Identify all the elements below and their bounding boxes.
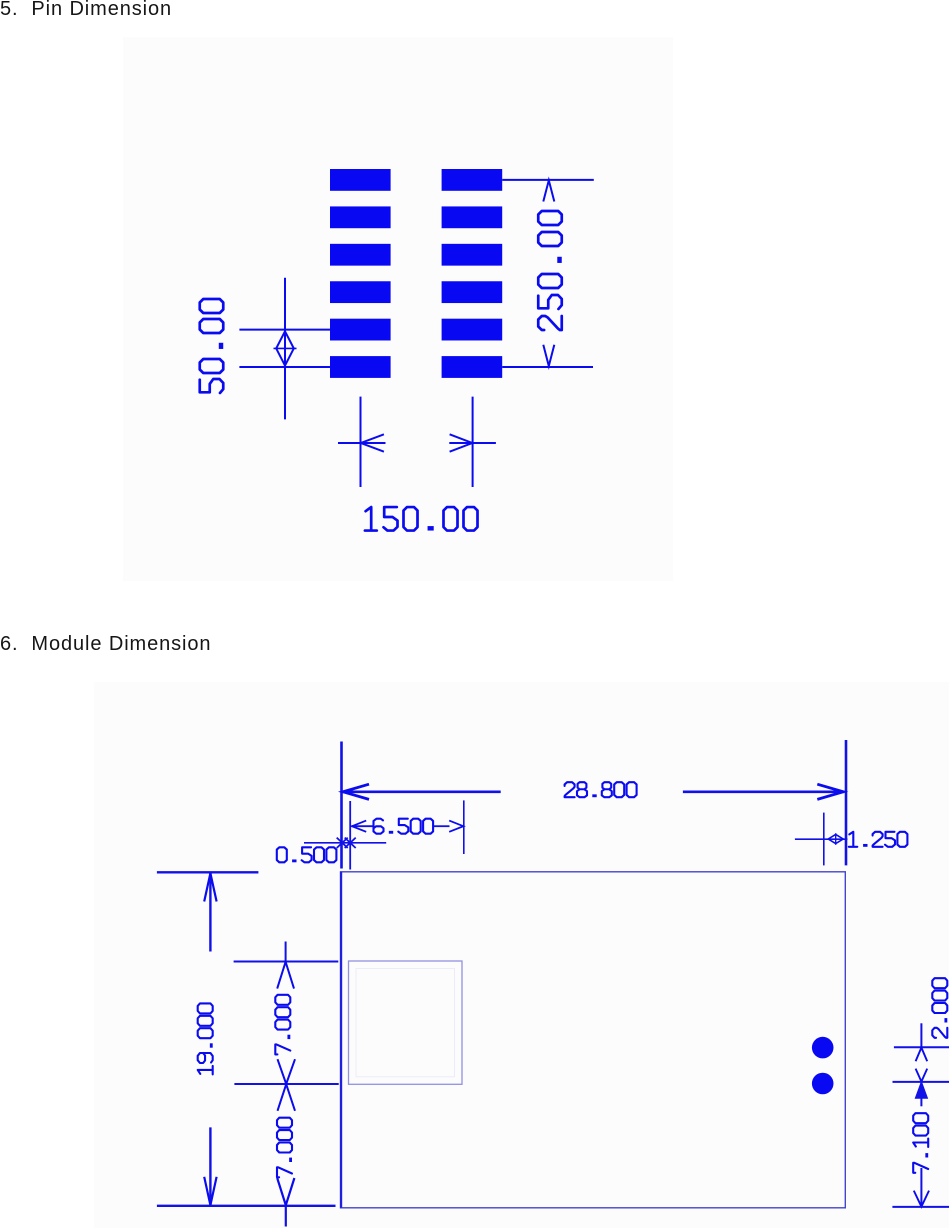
hole upper bbox=[812, 1037, 834, 1059]
250.00 extension line top bbox=[502, 179, 594, 181]
0.500 dim line bbox=[304, 842, 386, 844]
7.000 upper label bbox=[275, 995, 290, 1055]
pin pad right 6 bbox=[442, 356, 503, 378]
7.100 down arrow bbox=[914, 1191, 929, 1207]
pin pad right 2 bbox=[442, 206, 503, 228]
19.000 bottom extension line bbox=[157, 1205, 336, 1207]
pin pad left 5 bbox=[330, 319, 391, 341]
pin pad left 4 bbox=[330, 281, 391, 303]
19.000 down arrow bbox=[204, 1177, 216, 1205]
150.00 left cross line bbox=[338, 442, 386, 444]
pin pad right 4 bbox=[442, 281, 503, 303]
7.000 lower label bbox=[277, 1118, 292, 1178]
2.000 label bbox=[932, 978, 947, 1038]
7.000 upper dim line bbox=[234, 961, 339, 963]
2.000 arrow above lower line bbox=[916, 1069, 928, 1082]
shield can inner line bbox=[356, 969, 455, 1077]
7.100 label bbox=[913, 1113, 928, 1173]
pin pad left 1 bbox=[330, 169, 391, 191]
7.000 middle dim line bbox=[234, 1083, 338, 1085]
2.000 lower dim line bbox=[893, 1081, 949, 1083]
6.500 left boundary line bbox=[349, 801, 351, 870]
0.500 label bbox=[277, 847, 337, 862]
pin pad left 3 bbox=[330, 244, 391, 266]
pin pad right 5 bbox=[442, 319, 503, 341]
250.00 extension line bottom bbox=[502, 366, 593, 368]
0.500 slash mark right 2 bbox=[345, 838, 356, 848]
7.100 up arrow tail bbox=[920, 1082, 922, 1106]
section heading 5 bbox=[0, 0, 172, 21]
150.00 label bbox=[365, 507, 478, 531]
250.00 down arrow bbox=[543, 345, 554, 366]
19.000 label bbox=[198, 1003, 213, 1074]
7.000 bottom arrow bbox=[277, 1178, 294, 1205]
28.800 right arrow bbox=[817, 784, 843, 799]
7.100 down arrow tail bbox=[920, 1168, 922, 1207]
2.000 upper dim line bbox=[894, 1046, 949, 1048]
250.00 up arrow bbox=[543, 180, 554, 201]
7.100 bottom dim line bbox=[892, 1206, 949, 1208]
19.000 up arrow tail bbox=[209, 873, 211, 952]
50.00 dimension vertical line bbox=[284, 278, 286, 420]
pin pad right 3 bbox=[442, 244, 503, 266]
50.00 arrow diamond bbox=[276, 331, 294, 365]
module outline bbox=[341, 872, 846, 1208]
module drawing background area bbox=[94, 682, 949, 1228]
7.000 upper arrow below line bbox=[277, 962, 294, 989]
section heading 6 bbox=[0, 633, 211, 656]
7.100 up arrow bbox=[916, 1082, 928, 1098]
50.00 extension line lower bbox=[239, 366, 330, 368]
150.00 right cross line bbox=[449, 442, 496, 444]
1.250 label bbox=[849, 832, 908, 847]
28.800 left arrow bbox=[343, 784, 369, 799]
50.00 extension line upper bbox=[239, 329, 330, 331]
hole lower bbox=[812, 1073, 834, 1095]
1.250 arrow diamond bbox=[828, 834, 843, 843]
pin pad left 2 bbox=[330, 206, 391, 228]
1.250 diamond tick bbox=[835, 833, 837, 845]
0.500 slash mark right bbox=[345, 838, 356, 848]
pin pad left 6 bbox=[330, 356, 391, 378]
7.000 middle X lower arrow bbox=[278, 1084, 296, 1111]
6.500 right tick line bbox=[463, 800, 465, 854]
7.000 upper stub above bbox=[285, 942, 287, 962]
0.500 slash mark left bbox=[337, 838, 348, 848]
150.00 left centerline bbox=[360, 397, 362, 487]
28.800 dim line left seg bbox=[343, 790, 501, 793]
2.000 stub above bbox=[920, 1023, 922, 1047]
6.500 left arrow bbox=[352, 821, 366, 832]
6.500 dim line right seg bbox=[434, 825, 450, 827]
6.500 dim line left seg bbox=[352, 825, 373, 827]
7.000 middle X upper arrow bbox=[278, 1059, 296, 1084]
28.800 left extension line bbox=[340, 742, 343, 869]
pin drawing background area bbox=[123, 37, 673, 581]
6.500 right arrow bbox=[449, 821, 463, 832]
2.000 arrow below upper line bbox=[916, 1048, 928, 1062]
19.000 top extension line bbox=[157, 871, 259, 873]
19.000 down arrow tail bbox=[209, 1127, 211, 1205]
1.250 dim line bbox=[795, 838, 848, 840]
module left edge heavy bbox=[340, 872, 342, 1208]
150.00 left arrow bbox=[361, 434, 384, 451]
150.00 right arrow bbox=[450, 434, 473, 451]
19.000 up arrow bbox=[204, 873, 216, 901]
1.250 left boundary line bbox=[823, 813, 825, 866]
6.500 label bbox=[374, 819, 434, 834]
7.000 bottom stub below bbox=[285, 1206, 287, 1227]
250.00 label bbox=[538, 211, 562, 330]
28.800 label bbox=[565, 782, 637, 797]
150.00 right centerline bbox=[472, 397, 474, 487]
shield can outline bbox=[349, 961, 463, 1084]
0.500 slash mark left 2 bbox=[337, 838, 348, 848]
pin pad right 1 bbox=[442, 169, 503, 191]
28.800 right extension line bbox=[845, 740, 848, 865]
28.800 dim line right seg bbox=[683, 790, 844, 793]
50.00 label bbox=[200, 299, 224, 393]
50.00 diamond side ticks bbox=[274, 347, 297, 349]
